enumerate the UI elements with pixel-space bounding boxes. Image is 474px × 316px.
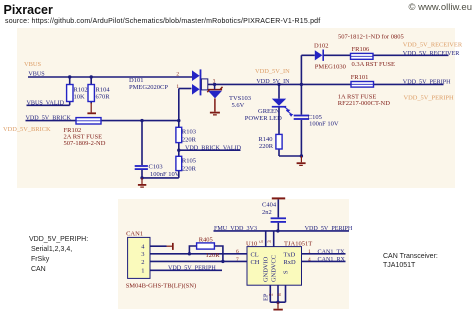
- svg-text:220R: 220R: [259, 143, 274, 150]
- svg-text:1: 1: [308, 249, 311, 255]
- svg-text:VBUS: VBUS: [24, 61, 41, 68]
- svg-text:5.6V: 5.6V: [232, 102, 245, 109]
- svg-text:FR101: FR101: [351, 74, 369, 81]
- svg-text:VBUS: VBUS: [28, 72, 45, 78]
- svg-text:4: 4: [308, 257, 311, 263]
- svg-text:10K: 10K: [74, 93, 86, 100]
- svg-text:220R: 220R: [182, 137, 197, 144]
- svg-text:PMEG1030: PMEG1030: [315, 63, 346, 70]
- svg-text:R103: R103: [182, 129, 196, 136]
- svg-text:3: 3: [267, 240, 273, 243]
- svg-text:100nF 10V: 100nF 10V: [309, 121, 339, 128]
- svg-text:120R: 120R: [206, 252, 221, 259]
- svg-text:3: 3: [141, 251, 144, 258]
- svg-text:VDD_5V_RECEIVER: VDD_5V_RECEIVER: [403, 51, 460, 57]
- svg-text:POWER LED: POWER LED: [245, 115, 282, 122]
- svg-text:CAN1_RX: CAN1_RX: [318, 257, 346, 263]
- svg-text:507-1812-1-ND for 0805: 507-1812-1-ND for 0805: [338, 33, 404, 40]
- svg-text:C404: C404: [262, 201, 277, 208]
- svg-text:CH: CH: [251, 259, 260, 266]
- svg-text:220R: 220R: [182, 166, 197, 173]
- svg-text:670R: 670R: [96, 93, 111, 100]
- svg-text:VDD_5V_BRICK: VDD_5V_BRICK: [3, 126, 51, 133]
- svg-text:2n2: 2n2: [262, 209, 272, 216]
- svg-text:VDD_5V_IN: VDD_5V_IN: [255, 68, 290, 75]
- svg-text:VDD_5V_PERIPH: VDD_5V_PERIPH: [403, 79, 451, 85]
- svg-text:FR106: FR106: [352, 46, 370, 53]
- svg-text:CAN1: CAN1: [126, 231, 143, 238]
- svg-text:TxD: TxD: [284, 251, 296, 258]
- svg-text:1: 1: [141, 268, 144, 275]
- svg-text:100nF 10V: 100nF 10V: [150, 171, 180, 178]
- svg-text:VDD_BRICK_VALID: VDD_BRICK_VALID: [185, 145, 242, 151]
- svg-text:VDD_5V_BRICK: VDD_5V_BRICK: [26, 115, 72, 121]
- svg-text:VDD_5V_PERIPH: VDD_5V_PERIPH: [404, 95, 454, 102]
- svg-text:TVS103: TVS103: [229, 95, 251, 102]
- svg-text:R140: R140: [258, 136, 272, 143]
- svg-text:S: S: [283, 270, 290, 274]
- svg-text:GREEN: GREEN: [258, 108, 280, 115]
- svg-text:VDD_5V_RECEIVER: VDD_5V_RECEIVER: [403, 41, 463, 48]
- svg-text:SM04B-GHS-TB(LF)(SN): SM04B-GHS-TB(LF)(SN): [126, 282, 196, 289]
- svg-text:2: 2: [141, 259, 144, 266]
- svg-text:C103: C103: [149, 164, 163, 171]
- svg-text:GNDVIO: GNDVIO: [263, 256, 270, 282]
- svg-text:EP: EP: [262, 293, 269, 301]
- svg-text:U10: U10: [246, 241, 257, 248]
- svg-text:PMEG2020CP: PMEG2020CP: [129, 84, 168, 91]
- svg-text:FMU_VDD_3V3: FMU_VDD_3V3: [214, 226, 257, 232]
- svg-text:2: 2: [176, 72, 179, 78]
- svg-text:RF2217-000CT-ND: RF2217-000CT-ND: [338, 100, 390, 107]
- svg-text:5: 5: [259, 240, 265, 243]
- svg-text:7: 7: [236, 257, 239, 263]
- svg-text:0.3A RST FUSE: 0.3A RST FUSE: [352, 61, 395, 68]
- svg-text:R105: R105: [182, 158, 196, 165]
- svg-text:3: 3: [213, 79, 216, 85]
- svg-text:507-1809-2-ND: 507-1809-2-ND: [64, 140, 106, 147]
- svg-text:R405: R405: [199, 236, 213, 243]
- svg-text:TJA1051T: TJA1051T: [284, 241, 312, 248]
- svg-text:D102: D102: [314, 42, 328, 49]
- svg-text:VBUS_VALID: VBUS_VALID: [27, 100, 65, 106]
- svg-text:VDD_5V_IN: VDD_5V_IN: [256, 79, 290, 85]
- svg-text:VDD_5V_PERIPH: VDD_5V_PERIPH: [305, 226, 353, 232]
- svg-text:VDD_5V_PERIPH: VDD_5V_PERIPH: [168, 265, 216, 271]
- svg-text:8: 8: [277, 293, 283, 296]
- svg-text:CAN1_TX: CAN1_TX: [318, 249, 346, 255]
- svg-text:CL: CL: [251, 251, 259, 258]
- svg-text:1: 1: [176, 84, 179, 90]
- svg-text:GNDVCC: GNDVCC: [271, 255, 278, 282]
- svg-text:6: 6: [236, 249, 239, 255]
- svg-text:RxD: RxD: [284, 259, 296, 266]
